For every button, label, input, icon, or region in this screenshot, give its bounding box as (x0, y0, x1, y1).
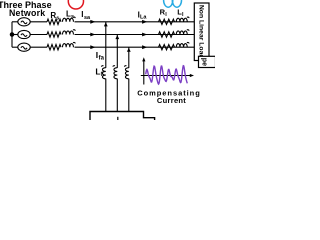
svg-text:fa: fa (99, 55, 105, 61)
arrow ILa current direction (142, 20, 147, 24)
label ILa (138, 10, 148, 20)
wire filter tap phase a (105, 22, 107, 68)
svg-text:s: s (71, 14, 74, 20)
svg-text:l: l (182, 12, 184, 18)
resistor Rl phase c (159, 45, 175, 50)
resistor Rs phase a (47, 19, 61, 24)
inductor Ll phase a (176, 17, 189, 22)
wire filter tap phase c (128, 47, 130, 68)
arrow Ifb injection into line b (115, 35, 119, 39)
svg-text:sa: sa (84, 15, 91, 21)
svg-text:s: s (56, 16, 59, 22)
red highlight ellipse over Ls area (68, 0, 83, 9)
node junction dot on left bus (10, 33, 13, 36)
svg-text:Non Linear Load: Non Linear Load (197, 5, 204, 59)
label Isa (81, 10, 91, 21)
wire left bus vertical (11, 22, 13, 47)
wire source Vc to resistor Rs (30, 46, 47, 48)
svg-text:Network: Network (9, 8, 45, 18)
scope box (cut at right edge) (199, 56, 216, 67)
arrow axis right (190, 74, 194, 77)
inductor Ls phase b (63, 30, 76, 35)
arrow ILb current direction (142, 33, 147, 37)
wire source Va to resistor Rs (30, 21, 47, 23)
ac source Vc (18, 43, 30, 51)
label Lf (95, 66, 103, 78)
arrow Isb current direction (90, 33, 95, 37)
wire phase a supply line (75, 21, 195, 23)
wire phase c supply line (75, 46, 195, 48)
inductor Lf phase a (101, 66, 105, 79)
label Ll (177, 8, 184, 19)
arrow Ifc injection into line c (127, 48, 131, 52)
compensating current waveform (146, 66, 188, 84)
arrow ILc current direction (142, 45, 147, 49)
label Three Phase Network (0, 0, 52, 18)
svg-text:pe: pe (201, 58, 208, 66)
label Compensating Current (137, 89, 201, 105)
blue scribble loop 2 over Ll area (172, 0, 181, 7)
inductor Ls phase a (63, 17, 76, 22)
wire source Vb to resistor Rs (30, 34, 47, 36)
axis vertical for compensating current plot (143, 60, 145, 85)
blue scribble loop 1 over Ll area (164, 0, 173, 7)
inductor Lf phase b (113, 66, 117, 79)
svg-text:Current: Current (157, 96, 186, 105)
non linear load box U1 (194, 3, 209, 61)
resistor Rl phase a (159, 19, 175, 24)
inductor Ls phase c (63, 42, 76, 47)
resistor Rs phase b (47, 32, 61, 37)
wire from bus to source Va (12, 21, 18, 23)
svg-text:l: l (165, 12, 167, 18)
inductor Lf phase c (124, 66, 128, 79)
wire phase b supply line (75, 34, 195, 36)
arrow Isa current direction (90, 20, 95, 24)
active filter box U2 (90, 112, 155, 121)
inductor Ll phase b (176, 30, 189, 35)
label Ls (66, 10, 74, 21)
arrow Ifa injection into line a (104, 22, 108, 26)
arrow axis up (142, 57, 145, 61)
resistor Rl phase b (159, 32, 175, 37)
ac source Vb (18, 30, 30, 38)
svg-text:La: La (140, 15, 147, 21)
axis horizontal for compensating current plot (141, 75, 191, 77)
label Ifa (96, 50, 105, 62)
wire filter tap phase b (116, 35, 118, 68)
label Rs (50, 11, 59, 22)
wire from bus to source Vb (12, 34, 18, 36)
wire from bus to source Vc (12, 46, 18, 48)
arrow Isc current direction (90, 45, 95, 49)
label Rl (160, 8, 168, 19)
ac source Va (18, 18, 30, 26)
resistor Rs phase c (47, 45, 61, 50)
inductor Ll phase c (176, 42, 189, 47)
filter box inner mark (117, 117, 119, 120)
